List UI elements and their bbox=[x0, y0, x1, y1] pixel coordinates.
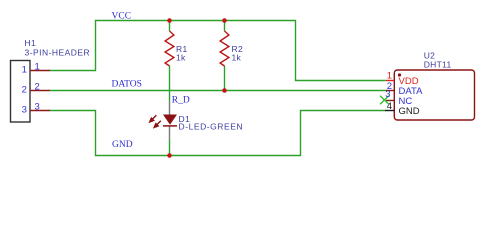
H1 pin 1 stub bbox=[30, 70, 50, 72]
connector H1 3-PIN-HEADER body bbox=[11, 61, 31, 123]
wire VCC net: header pin1 up and across top to DHT11 pin1 bbox=[50, 21, 386, 81]
LED D1 emission arrow upper bbox=[149, 115, 156, 122]
wire GND net: header pin3 down along bottom to DHT11 pin4 bbox=[50, 111, 386, 156]
svg-text:1: 1 bbox=[22, 64, 27, 75]
svg-text:1k: 1k bbox=[232, 53, 242, 63]
LED D1 cathode bar bbox=[163, 125, 177, 127]
svg-text:1k: 1k bbox=[176, 53, 186, 63]
node junction DATOS-R2 bbox=[222, 88, 227, 93]
U2 pin 4 stub bbox=[385, 110, 394, 112]
svg-text:1: 1 bbox=[35, 62, 40, 73]
wire R_D net: R1 bottom to LED anode bbox=[169, 66, 171, 101]
svg-text:DHT11: DHT11 bbox=[424, 59, 452, 69]
wire DATOS net: header pin2 across to DHT11 pin2 bbox=[50, 90, 386, 92]
svg-text:3: 3 bbox=[385, 89, 390, 100]
IC U2 DHT11 body bbox=[394, 70, 474, 120]
LED D1 anode pin (gray) bbox=[169, 101, 171, 115]
svg-text:DATOS: DATOS bbox=[112, 79, 142, 89]
LED D1 emission arrow lower bbox=[154, 121, 161, 128]
resistor R1 bbox=[165, 31, 174, 66]
svg-text:1: 1 bbox=[387, 70, 392, 81]
U2 pin 1 stub bbox=[386, 80, 395, 82]
H1 pin 3 stub bbox=[30, 110, 50, 112]
resistor R2 bbox=[220, 31, 229, 66]
svg-text:4: 4 bbox=[387, 101, 392, 112]
IC U2 pin-1 marker dot bbox=[398, 73, 401, 76]
svg-text:VCC: VCC bbox=[112, 11, 132, 21]
svg-text:GND: GND bbox=[399, 106, 420, 117]
svg-text:2: 2 bbox=[35, 82, 40, 93]
U2 pin 3 stub bbox=[386, 100, 394, 102]
node junction GND-LED bbox=[167, 153, 172, 158]
wire LED cathode to GND bbox=[169, 140, 171, 156]
svg-text:D-LED-GREEN: D-LED-GREEN bbox=[179, 122, 244, 132]
svg-text:3: 3 bbox=[35, 102, 40, 113]
LED D1 triangle bbox=[163, 115, 177, 125]
wire R2 bottom lead to DATOS bbox=[224, 66, 226, 91]
svg-text:3-PIN-HEADER: 3-PIN-HEADER bbox=[25, 48, 91, 58]
U2 pin 2 stub bbox=[386, 90, 395, 92]
U2 pin 3 no-connect X bbox=[380, 96, 389, 105]
wire R1 top lead bbox=[169, 21, 171, 32]
svg-text:3: 3 bbox=[22, 104, 27, 115]
node junction VCC-R1 bbox=[167, 18, 172, 23]
wire R2 top lead bbox=[224, 21, 226, 32]
H1 pin 2 stub bbox=[30, 90, 50, 92]
LED D1 cathode pin (gray) bbox=[169, 127, 171, 141]
svg-text:2: 2 bbox=[22, 84, 27, 95]
svg-text:R_D: R_D bbox=[172, 96, 190, 106]
svg-text:H1: H1 bbox=[25, 38, 36, 48]
svg-text:GND: GND bbox=[112, 140, 133, 150]
node junction VCC-R2 bbox=[222, 18, 227, 23]
